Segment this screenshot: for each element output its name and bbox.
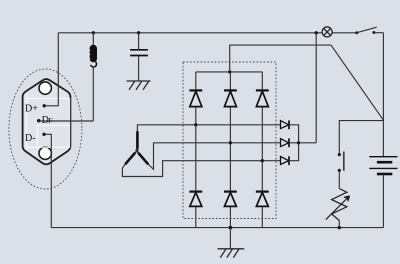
lamp line vertical xyxy=(315,33,317,143)
rectifier dashed box xyxy=(183,62,276,219)
node exciter bus out xyxy=(297,141,300,144)
svg-text:D-: D- xyxy=(25,133,36,144)
node capacitor junction xyxy=(137,31,140,34)
diode D3 xyxy=(256,90,269,106)
svg-text:D+: D+ xyxy=(25,103,38,114)
rheostat R1 xyxy=(326,189,350,221)
diode D5 xyxy=(224,192,237,207)
indicator lamp H1 xyxy=(322,27,332,37)
dashed ellipse regulator outline xyxy=(9,69,82,189)
bottom bus wire xyxy=(51,227,383,229)
node phase3 col3 xyxy=(261,159,264,162)
diode D2 xyxy=(224,90,237,106)
exciter diode D9 xyxy=(281,156,290,165)
node rheostat bottom xyxy=(338,226,341,229)
exciter diode D7 xyxy=(281,120,290,129)
terminal block white outline xyxy=(27,98,70,147)
coil L1 regulator winding xyxy=(89,45,97,67)
battery G1 xyxy=(382,121,384,157)
wire D+ to top bus xyxy=(44,33,58,106)
ground bridge xyxy=(229,228,231,249)
wire top bus to coil xyxy=(92,33,94,45)
exciter bus wire xyxy=(289,125,299,161)
stator winding W1 phase2 coil left xyxy=(126,153,135,163)
phase wire 1 xyxy=(137,125,280,132)
mounting hole bottom xyxy=(39,147,51,159)
stator winding W1 phase3 coil right xyxy=(139,153,148,163)
node bridge B+ xyxy=(228,70,231,73)
regulator housing xyxy=(23,79,71,164)
diode D1 xyxy=(189,90,202,106)
capacitor C1 xyxy=(138,33,140,50)
diode D4 xyxy=(189,192,202,207)
wire DF to coil xyxy=(39,120,93,122)
node phase2 col2 xyxy=(229,141,232,144)
wire junction to contact xyxy=(339,121,383,154)
bridge column 1 xyxy=(195,72,197,228)
terminal dot D- xyxy=(42,133,45,136)
ground capacitor xyxy=(127,81,151,90)
node ground junction xyxy=(229,226,233,230)
wire coil to DF xyxy=(92,67,94,121)
phase wire 3 xyxy=(122,161,280,177)
stator star point xyxy=(135,149,138,152)
mounting hole top xyxy=(39,82,51,94)
terminal dot D+ xyxy=(43,104,46,107)
stator winding W1 phase1 coil xyxy=(126,132,148,164)
top bus wire xyxy=(58,32,357,34)
terminal dot DF xyxy=(37,119,40,122)
bridge column 3 xyxy=(261,72,263,228)
node coil top junction xyxy=(92,31,95,34)
bridge column 2 xyxy=(229,72,231,228)
ignition switch S1 xyxy=(355,31,358,34)
bridge top bus xyxy=(196,71,262,73)
exciter diode D8 xyxy=(281,138,290,147)
wire D- to bottom bus xyxy=(44,134,51,227)
node lamp line top xyxy=(315,31,318,34)
regulator contact K1 xyxy=(338,153,341,156)
svg-text:F: F xyxy=(48,116,52,125)
right edge wire xyxy=(382,33,384,121)
phase wire 2 xyxy=(148,143,281,170)
wire exciter bus to lamp line xyxy=(299,142,317,144)
node phase1 col1 xyxy=(194,123,197,126)
diode D6 xyxy=(256,192,269,207)
B plus riser wire xyxy=(230,45,331,72)
B plus diagonal wire xyxy=(331,45,384,121)
